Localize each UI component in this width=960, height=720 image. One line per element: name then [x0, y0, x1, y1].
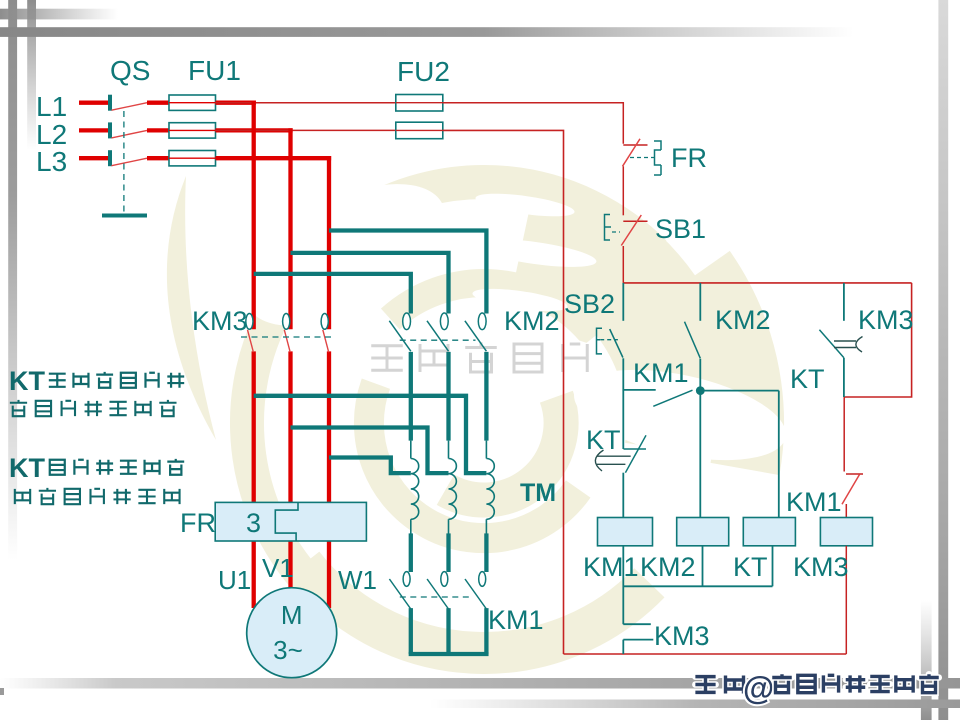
wire KT contact to KM1 coil — [622, 473, 624, 518]
wire control top rail — [623, 282, 911, 284]
svg-text:TM: TM — [520, 479, 556, 507]
wire KM1 coil bottom — [622, 546, 624, 624]
contact KM1 NC interlock — [842, 474, 863, 504]
wire SB2 to KM1 aux — [622, 358, 624, 390]
contactor KM2 main contact pole 3 — [465, 313, 487, 351]
wire branch4 drop — [843, 283, 845, 321]
wire KT coil bottom — [772, 546, 774, 587]
wire branch2 drop — [699, 283, 701, 321]
switch QS linkage dashed — [123, 111, 125, 213]
KM1 main linkage dashed — [400, 596, 472, 598]
coil KM1 — [598, 518, 653, 546]
svg-text:FR: FR — [671, 143, 707, 173]
wire to KM3 coil — [845, 504, 847, 518]
contactor KM1 main contact pole 1 — [389, 572, 410, 609]
wire phase C to TM tap1 — [329, 458, 411, 474]
contactor KM3 main contact pole 2 — [283, 314, 291, 353]
wire KM1 pole 2 to star bus — [446, 608, 450, 654]
svg-text:FU1: FU1 — [188, 55, 241, 86]
wire SB1 to junction — [622, 246, 624, 283]
contactor KM3 main contact pole 3 — [321, 314, 329, 353]
contactor KM2 main contact pole 2 — [427, 313, 449, 351]
contact KM3 aux NO — [623, 624, 653, 639]
svg-text:KT: KT — [9, 453, 45, 483]
coil KM2 — [677, 518, 729, 546]
svg-text:SB2: SB2 — [564, 289, 615, 319]
contactor KM2 main contact pole 1 — [389, 313, 411, 351]
svg-text:FR: FR — [180, 508, 216, 538]
watermark text 非会员水印 — [371, 342, 587, 372]
svg-text:KM2: KM2 — [504, 306, 560, 336]
svg-text:SB1: SB1 — [655, 214, 706, 244]
svg-text:KM3: KM3 — [793, 552, 849, 582]
svg-text:KT: KT — [733, 552, 768, 582]
wire L2 row / switch QS pole 2 / fuse FU1-2 — [79, 122, 216, 138]
wire KM3 aux to bottom rail — [622, 640, 624, 654]
wire star point bus — [409, 652, 489, 656]
svg-text:KM2: KM2 — [640, 552, 696, 582]
button SB1 NC stop — [605, 215, 648, 246]
svg-text:KT: KT — [586, 425, 621, 455]
transformer TM winding 2 — [449, 441, 457, 535]
KM2 main linkage dashed — [400, 339, 476, 341]
thermal relay FR heater box — [215, 502, 366, 541]
wire KM3 branch red drop — [843, 397, 845, 472]
wire branch1 to KT contact — [622, 390, 624, 449]
contact FR NC thermal — [623, 139, 662, 175]
wire phase C to KM2 pole3 — [329, 231, 486, 314]
svg-text:L1: L1 — [36, 91, 67, 122]
wire TM coil 1 to KM1 pole — [409, 533, 413, 572]
wire FU2-2 to left rail — [443, 130, 564, 654]
svg-text:U1: U1 — [218, 565, 251, 595]
svg-text:KT: KT — [9, 366, 45, 396]
watermark swirl graphic — [167, 76, 794, 653]
wire phase B to KM2 pole2 — [291, 253, 449, 314]
contact KM3 delayed NC — [819, 330, 862, 358]
fuse FU2-2 — [396, 122, 443, 139]
svg-text:@: @ — [743, 670, 774, 706]
wire KT coil branch — [778, 391, 780, 518]
svg-text:KM3: KM3 — [858, 305, 914, 335]
wire KM3 contact drop — [843, 358, 845, 397]
svg-text:3: 3 — [246, 508, 261, 538]
wire phase B to TM tap2 — [291, 428, 449, 474]
wire power vertical phase A — [252, 101, 256, 608]
svg-text:KM1: KM1 — [488, 605, 544, 635]
switch QS handle bar — [102, 214, 147, 218]
motor M 3~ — [247, 588, 337, 678]
wire L1 row / switch QS pole 1 / fuse FU1-1 — [79, 95, 216, 111]
contact KT delayed NO — [595, 435, 646, 472]
svg-text:KM2: KM2 — [715, 305, 771, 335]
contact KM1 aux NO — [623, 390, 692, 406]
svg-text:KM1: KM1 — [633, 358, 689, 388]
contactor KM1 main contact pole 2 — [427, 572, 448, 609]
contact KM2 aux NO — [685, 322, 701, 359]
coil KT — [743, 518, 795, 546]
svg-text:V1: V1 — [262, 553, 294, 583]
wire node to KT branch — [700, 390, 779, 392]
svg-text:KM3: KM3 — [654, 621, 710, 651]
coil KM3 — [820, 518, 872, 546]
contactor KM3 main contact pole 1 — [246, 314, 254, 353]
wire branch1 drop — [622, 283, 624, 321]
wire KM2 pole 1 to TM coil 1 — [409, 352, 413, 441]
logo 头条@电气自动化应用 — [695, 670, 938, 706]
svg-text:L3: L3 — [36, 146, 67, 177]
svg-text:W1: W1 — [338, 565, 377, 595]
wire L3 row / switch QS pole 3 / fuse FU1-3 — [79, 150, 216, 166]
svg-text:M: M — [281, 600, 303, 630]
wire KM1 pole 1 to star bus — [409, 608, 413, 654]
svg-text:KM1: KM1 — [583, 552, 639, 582]
node junction dot — [696, 386, 705, 395]
svg-text:KT: KT — [790, 364, 825, 394]
wire FU2-1 to control drop — [443, 103, 623, 144]
KM3 main linkage dashed — [241, 336, 334, 338]
wire KM2 pole 3 to TM coil 3 — [484, 352, 488, 441]
contactor KM1 main contact pole 3 — [465, 572, 486, 609]
wire KM2 pole 2 to TM coil 2 — [446, 352, 450, 441]
wire coil bottom bus — [623, 585, 772, 587]
transformer TM winding 3 — [486, 441, 494, 535]
annotation text KT timing notes — [9, 366, 184, 504]
button SB2 NO start — [597, 328, 623, 357]
wire phase A to KM2 pole1 — [254, 274, 411, 314]
wire phase C horizontal to corner — [216, 156, 332, 160]
wire control right rail — [844, 283, 912, 397]
wire phase B horizontal to corner — [216, 128, 293, 132]
decorative frame bars — [8, 0, 17, 560]
wire row1 thin to FU2-1 — [216, 102, 396, 104]
wire KM1 pole 3 to star bus — [484, 608, 488, 654]
svg-text:QS: QS — [110, 55, 150, 86]
wire branch2 to KM2 coil — [699, 359, 701, 518]
wire KM2 coil bottom — [702, 546, 704, 587]
wire TM coil 2 to KM1 pole — [446, 533, 450, 572]
wire KM3 coil bottom red — [845, 546, 847, 654]
wire power vertical phase C — [327, 156, 331, 608]
wire control bottom rail — [564, 653, 847, 655]
wire row2 thin to FU2-2 — [216, 129, 396, 131]
svg-text:KM1: KM1 — [786, 487, 842, 517]
svg-text:3~: 3~ — [273, 635, 303, 665]
wire TM coil 3 to KM1 pole — [484, 533, 488, 572]
svg-text:KM3: KM3 — [192, 306, 248, 336]
fuse FU2-1 — [396, 95, 443, 112]
wire power vertical phase B — [288, 128, 292, 589]
transformer TM winding 1 — [411, 441, 419, 535]
svg-text:FU2: FU2 — [397, 56, 450, 87]
wire phase A horizontal to corner — [216, 101, 256, 105]
wire phase A to TM tap3 — [254, 396, 487, 473]
wire FR to SB1 — [622, 166, 624, 215]
